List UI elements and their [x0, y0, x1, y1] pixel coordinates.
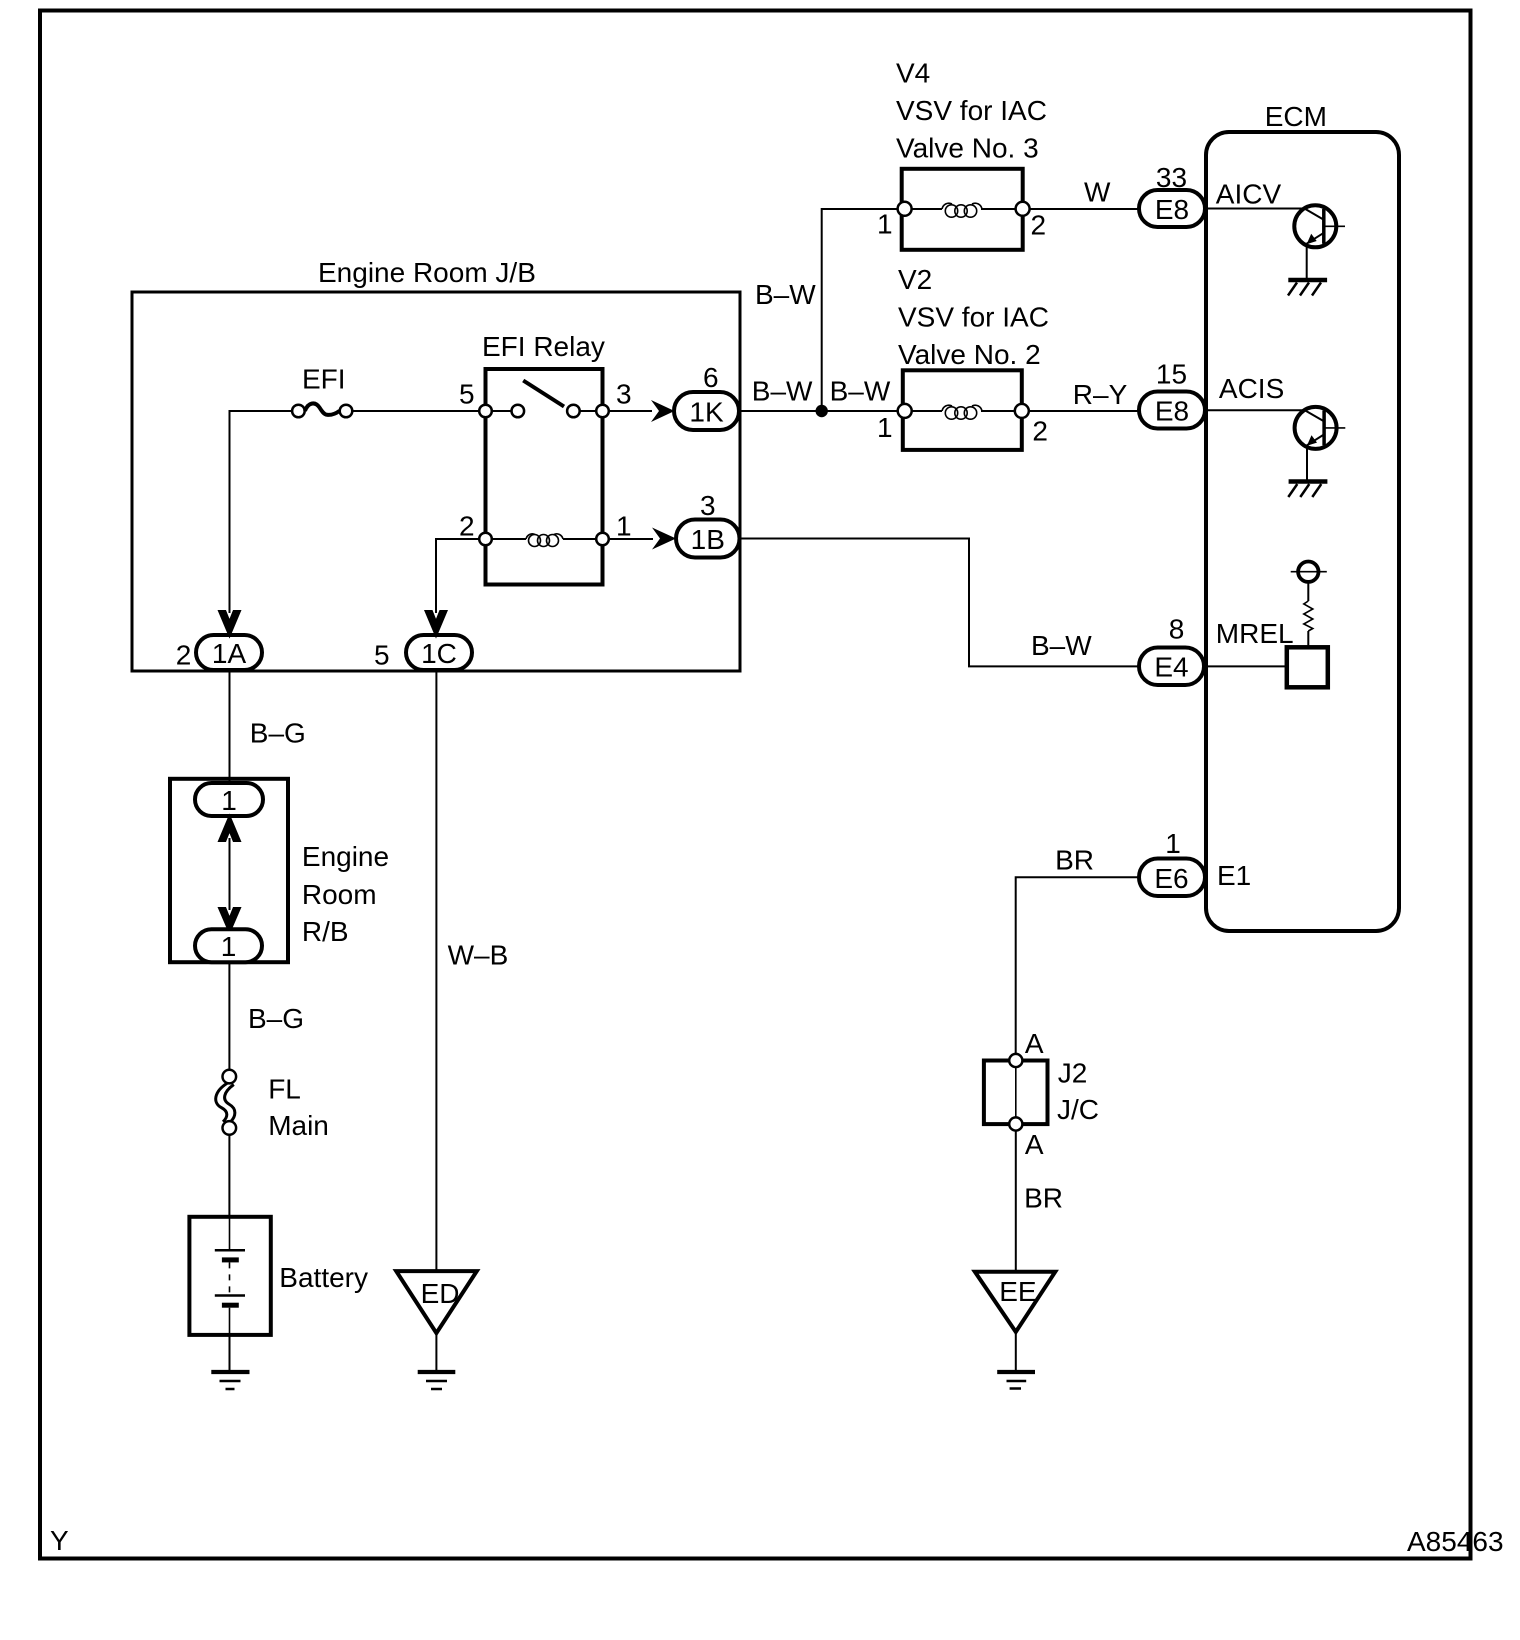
relay switch wire to pin 3 [580, 410, 596, 412]
svg-text:2: 2 [176, 640, 192, 671]
ground triangle EE [975, 1272, 1055, 1332]
Engine Room J/B box [132, 292, 740, 671]
relay pin 1 circle [596, 533, 609, 546]
wire: J2 to EE (BR) [1015, 1131, 1017, 1272]
wire: Q2 emitter to ground [1306, 447, 1308, 480]
J2 bottom terminal A circle [1009, 1117, 1022, 1130]
relay switch contact wire [492, 410, 512, 412]
wire: resistor to MREL box [1307, 631, 1309, 648]
svg-text:MREL: MREL [1216, 618, 1294, 649]
relay switch blade [523, 381, 564, 407]
svg-text:15: 15 [1156, 359, 1187, 390]
svg-text:B–W: B–W [755, 279, 816, 310]
relay contact circle right [567, 405, 580, 418]
svg-text:1: 1 [877, 209, 893, 240]
svg-text:W–B: W–B [448, 939, 509, 970]
wire: E4 to MREL square [1205, 665, 1287, 667]
svg-text:1: 1 [1165, 828, 1181, 859]
relay pin 5 circle [479, 405, 492, 418]
svg-text:6: 6 [703, 362, 719, 393]
svg-text:B–W: B–W [830, 376, 891, 407]
relay coil wire right [563, 538, 596, 540]
svg-text:ECM: ECM [1265, 101, 1327, 132]
arrow into 1A [219, 611, 240, 636]
wire: E6 to J2 riser (BR) [1016, 877, 1139, 1054]
wire: ED to ground [435, 1333, 437, 1370]
wire inside R/B [229, 838, 231, 910]
svg-text:B–W: B–W [752, 376, 813, 407]
svg-text:Main: Main [268, 1110, 329, 1141]
connector E8 oval (pin 33) [1139, 190, 1205, 227]
VSV V2 box [903, 370, 1022, 450]
FL Main fusible link [216, 1070, 236, 1135]
wire: EE to ground [1015, 1332, 1017, 1371]
junction dot B-W node [816, 405, 828, 417]
svg-text:VSV for IAC: VSV for IAC [896, 95, 1047, 126]
svg-text:A: A [1025, 1028, 1044, 1059]
wire: relay pin 3 to 1K [609, 410, 652, 412]
svg-text:33: 33 [1156, 162, 1187, 193]
svg-text:2: 2 [459, 511, 475, 542]
svg-text:EFI: EFI [302, 363, 346, 394]
svg-text:R–Y: R–Y [1073, 379, 1128, 410]
wire: fuse to relay pin 5 [352, 410, 484, 412]
wire: 1B to E4 (B-W) [740, 539, 1140, 667]
J2 J/C box [984, 1061, 1048, 1125]
svg-text:BR: BR [1055, 844, 1094, 875]
wire: V4 pin 2 to E8 (W) [1030, 208, 1139, 210]
svg-text:R/B: R/B [302, 916, 349, 947]
svg-text:EFI Relay: EFI Relay [482, 331, 605, 362]
connector 1K oval [674, 392, 739, 430]
R/B bottom oval 1 [195, 929, 262, 962]
svg-text:1K: 1K [689, 397, 724, 428]
svg-text:5: 5 [374, 640, 390, 671]
svg-text:FL: FL [268, 1073, 301, 1104]
svg-text:1: 1 [877, 412, 893, 443]
wire: E8 to AICV transistor [1205, 208, 1305, 210]
svg-text:ED: ED [421, 1278, 460, 1309]
wire: 1C down to ED (W-B) [435, 672, 437, 1272]
svg-text:E1: E1 [1217, 860, 1251, 891]
svg-text:J2: J2 [1058, 1058, 1088, 1089]
svg-text:Valve No. 2: Valve No. 2 [898, 339, 1041, 370]
V4 pin 2 circle [1016, 202, 1030, 216]
svg-text:2: 2 [1032, 416, 1048, 447]
relay coil [526, 534, 535, 539]
svg-text:3: 3 [616, 378, 632, 409]
MREL input square [1287, 647, 1328, 687]
svg-text:1C: 1C [421, 638, 457, 669]
V2 coil [942, 405, 952, 411]
J2 internal wire [1015, 1067, 1017, 1118]
relay pin 3 circle [596, 405, 609, 418]
svg-text:E4: E4 [1154, 652, 1188, 683]
arrow into 1K [651, 400, 675, 422]
svg-text:VSV for IAC: VSV for IAC [898, 301, 1049, 332]
connector E6 oval (pin 1) [1139, 859, 1205, 897]
wire: FL Main to battery [228, 1135, 230, 1218]
transistor Q1 AICV driver [1294, 205, 1345, 247]
V4 pin 1 circle [898, 202, 912, 216]
connector 1C oval [406, 635, 472, 670]
wire: 1K to junction to V2 pin 1 [739, 410, 898, 412]
wire: V2 pin 2 to E8 (R-Y) [1029, 410, 1139, 412]
Battery box [189, 1217, 270, 1335]
V4 coil wire right [981, 208, 1016, 210]
svg-text:8: 8 [1169, 614, 1185, 645]
wire: junction riser to V4 pin 1 [822, 209, 898, 411]
svg-text:BR: BR [1024, 1182, 1063, 1213]
arrow down inside R/B [219, 908, 240, 933]
wire: 1C branch to relay pin 2 [436, 539, 479, 613]
Engine Room R/B box [170, 779, 288, 962]
svg-text:J/C: J/C [1057, 1094, 1099, 1125]
svg-text:W: W [1084, 177, 1111, 208]
earth ground (EE) [997, 1372, 1035, 1389]
svg-text:1: 1 [616, 511, 632, 542]
arrow into 1B [652, 528, 676, 550]
svg-text:Y: Y [50, 1525, 69, 1556]
svg-text:Engine: Engine [302, 841, 389, 872]
chassis ground (AICV) [1288, 280, 1327, 296]
relay coil wire left [492, 538, 526, 540]
connector 1B oval [676, 520, 740, 558]
connector E4 oval (pin 8) [1139, 648, 1204, 686]
fuse EFI left terminal [292, 405, 305, 418]
svg-text:A: A [1025, 1129, 1044, 1160]
svg-text:E8: E8 [1155, 194, 1189, 225]
svg-text:1: 1 [221, 931, 237, 962]
wire: feed to resistor [1307, 582, 1309, 601]
relay pin 2 circle [479, 533, 492, 546]
svg-text:3: 3 [700, 490, 716, 521]
svg-text:1A: 1A [212, 638, 247, 669]
arrow into 1C [426, 611, 447, 636]
V2 pin 2 circle [1015, 404, 1029, 418]
svg-text:B–G: B–G [248, 1003, 304, 1034]
V2 pin 1 circle [898, 404, 912, 418]
wire: R/B to FL Main (B-G) [228, 962, 230, 1070]
svg-text:Valve No. 3: Valve No. 3 [896, 133, 1039, 164]
svg-text:B–G: B–G [250, 717, 306, 748]
EFI Relay box [486, 369, 603, 585]
connector E8 oval (pin 15) [1139, 392, 1205, 429]
R/B top oval 1 [195, 783, 263, 816]
svg-text:A85463: A85463 [1407, 1526, 1504, 1557]
wire: relay pin 1 to 1B [609, 538, 653, 540]
earth ground (ED) [418, 1372, 456, 1389]
svg-text:5: 5 [459, 378, 475, 409]
svg-text:B–W: B–W [1031, 630, 1092, 661]
battery internal symbol [215, 1218, 245, 1335]
wire: Q1 emitter to ground [1306, 246, 1308, 280]
svg-text:AICV: AICV [1216, 178, 1282, 209]
fuse EFI right terminal [340, 405, 353, 418]
V4 coil wire left [912, 208, 942, 210]
transistor Q2 ACIS driver [1295, 407, 1346, 449]
chassis ground (ACIS) [1288, 482, 1327, 498]
svg-text:Room: Room [302, 879, 377, 910]
V2 coil wire right [981, 410, 1015, 412]
ground triangle ED [396, 1271, 477, 1333]
resistor (MREL pull-up) [1304, 601, 1313, 631]
svg-text:2: 2 [1031, 210, 1047, 241]
svg-text:Engine Room J/B: Engine Room J/B [318, 257, 536, 288]
svg-text:E6: E6 [1154, 863, 1188, 894]
wire: battery to ground [229, 1335, 231, 1371]
J2 top terminal A circle [1009, 1054, 1022, 1067]
connector 1A oval [196, 635, 262, 670]
battery feed symbol (circle with bar) [1291, 562, 1327, 582]
svg-text:V4: V4 [896, 58, 930, 89]
svg-text:E8: E8 [1155, 396, 1189, 427]
wire: E8 to ACIS transistor [1205, 409, 1305, 411]
wire: 1A branch up to EFI fuse [230, 411, 293, 613]
V4 coil [942, 203, 952, 209]
svg-text:1B: 1B [691, 524, 725, 555]
wire: 1A to Engine Room R/B (B-G) [229, 672, 231, 785]
ECM box [1206, 132, 1399, 931]
svg-text:Battery: Battery [279, 1262, 368, 1293]
VSV V4 box [902, 169, 1023, 250]
svg-text:EE: EE [999, 1276, 1036, 1307]
svg-text:1: 1 [221, 785, 237, 816]
fuse EFI element [305, 403, 340, 414]
svg-text:V2: V2 [898, 264, 932, 295]
arrow up inside R/B [219, 816, 240, 841]
relay contact circle left [512, 405, 525, 418]
svg-text:ACIS: ACIS [1219, 373, 1284, 404]
earth ground (battery) [211, 1372, 249, 1389]
V2 coil wire left [912, 410, 942, 412]
